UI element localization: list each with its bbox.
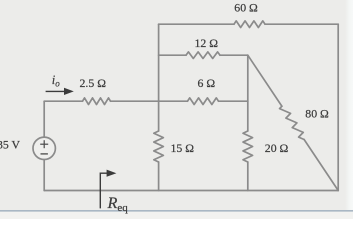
resistor 6ohm zigzag [188,98,219,105]
resistor 20ohm zigzag [243,131,253,162]
wire: middle vertical lower (20ohm to bottom rail) [247,162,249,191]
wire: left vertical lower (15ohm to bottom rail) [158,162,160,191]
resistor 15ohm zigzag [154,131,164,162]
wire: left vertical upper (top rail to 15ohm) [158,24,160,131]
wire: middle row right segment [219,100,248,102]
wire: bottom rail [44,190,338,192]
svg-text:12 Ω: 12 Ω [195,36,219,50]
voltage source V1 circle [33,137,55,159]
svg-text:35 V: 35 V [0,138,21,152]
resistor R 2.5ohm zigzag [83,98,111,105]
svg-text:80 Ω: 80 Ω [305,106,329,120]
current arrow i_o [46,88,74,95]
resistor 12ohm zigzag [186,52,220,59]
wire: middle vertical upper (12ohm row to 20ohm) [247,55,249,131]
voltage source minus sign [41,153,48,155]
wire: left branch bottom (source to bottom rail) [43,160,45,191]
voltage source plus sign [40,140,48,148]
svg-text:6 Ω: 6 Ω [198,76,216,90]
wire: middle row left segment [44,100,82,102]
resistor 80ohm zigzag (diagonal) [280,106,305,139]
wire: diagonal upper segment [248,55,282,106]
svg-text:20 Ω: 20 Ω [265,141,289,155]
wire: right vertical [337,24,339,190]
wire: middle row center segment [111,100,188,102]
wire: diagonal lower segment [304,139,338,190]
svg-text:60 Ω: 60 Ω [234,1,258,15]
wire: left branch top (source to middle row) [43,101,45,137]
wire: 12ohm row left segment [159,54,186,56]
bottom rule (pale blue) [0,212,353,220]
wire: top rail right segment [265,23,338,25]
Req probe arrow [100,170,116,209]
wire: 12ohm row right segment [220,54,248,56]
svg-text:2.5 Ω: 2.5 Ω [80,76,107,90]
resistor 60ohm zigzag [234,21,265,28]
svg-text:15 Ω: 15 Ω [171,141,195,155]
wire: top rail left segment [159,23,234,25]
